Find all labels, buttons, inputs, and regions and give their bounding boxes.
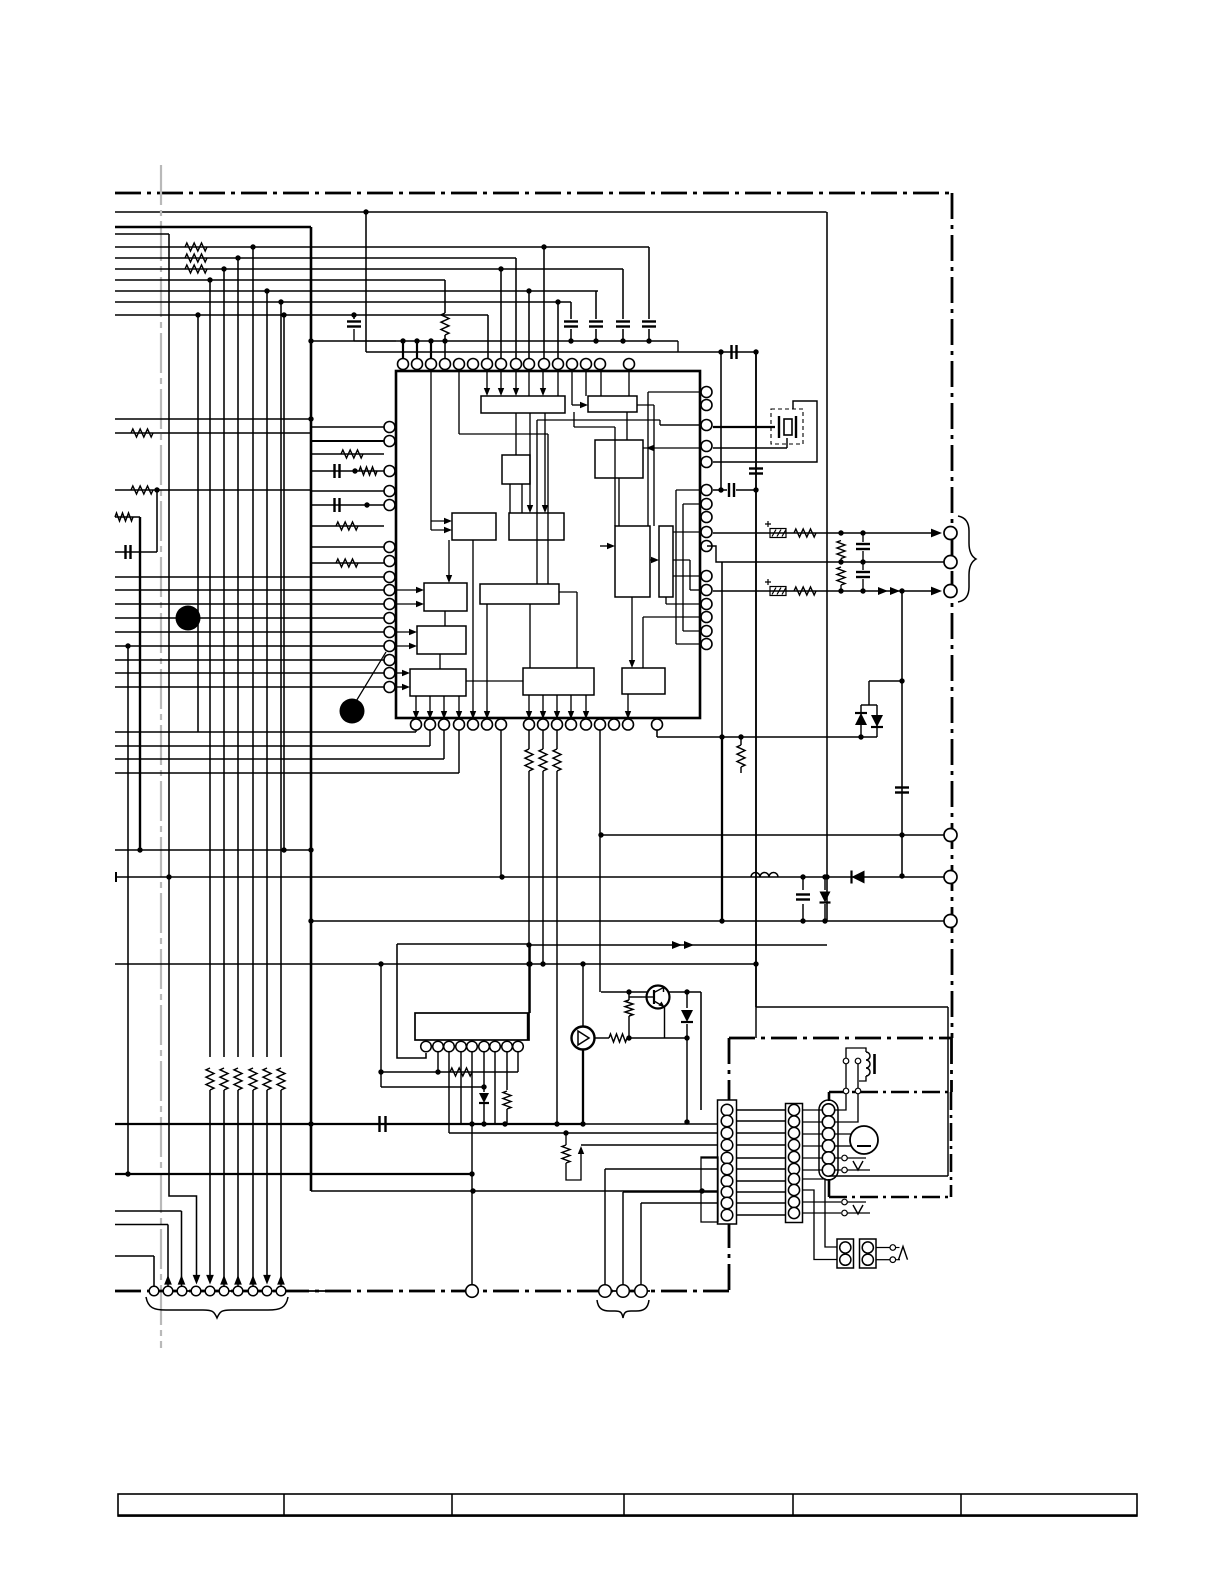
wire x=501 to pin [500, 269, 502, 358]
wire stub to rail [354, 340, 396, 342]
wire y=471 [311, 470, 384, 472]
cap C11 lead [802, 877, 804, 890]
junction [824, 874, 829, 879]
junction [699, 1188, 704, 1193]
IC U1 left pin 2 [384, 436, 395, 447]
resistor R3 [185, 265, 207, 273]
wire [862, 551, 864, 562]
arrowhead [527, 505, 533, 513]
fast-forward arrow 4 [684, 941, 694, 949]
IC U1 bottom pin 8 [524, 719, 535, 730]
resistor R20 [503, 1091, 511, 1109]
connector CN1 pin 2 [163, 1286, 173, 1296]
long net wire y=877 [117, 876, 944, 878]
wire CN3 pin10 to TP4 [802, 1212, 841, 1214]
CN2 pin5 stub [701, 1157, 718, 1159]
U1 wire L->bottom pin x=557 [556, 695, 558, 715]
connector CN5 pin 2 [840, 1254, 851, 1265]
IC U2 pin 8 [502, 1041, 513, 1052]
connector CN2 pin 6 [721, 1163, 733, 1175]
wire x=516 to pin [515, 258, 517, 358]
IC U1 top pin 16 [624, 359, 635, 370]
IC U1 right pin 16 [701, 639, 712, 650]
mating wire y=1121 [737, 1120, 785, 1122]
pin drop x=416 [415, 730, 417, 732]
border dash-dot jog vertical lower [728, 1222, 731, 1291]
wire CN4 pin4 to motor [835, 1145, 851, 1147]
connector CN2 pin 9 [721, 1197, 733, 1209]
border dash-dot right [951, 193, 954, 1038]
IC U1 bottom pin 15 [623, 719, 634, 730]
U1 wire J->K [439, 654, 441, 669]
mating wire y=1215 [737, 1214, 785, 1216]
IC U1 top pin 13 [567, 359, 578, 370]
U1 wire K->bottom pin x=430 [429, 696, 431, 715]
wire x=381 lower [380, 1072, 382, 1087]
jog wire pin to y=562 [707, 546, 722, 562]
diode D1 [855, 713, 867, 725]
polarity mark [765, 521, 771, 527]
U1 wire A->E x=530 [529, 413, 531, 509]
IC U2 pin 1 [421, 1041, 432, 1052]
IC U1 bottom pin 2 [425, 719, 436, 730]
IC U1 body [396, 371, 700, 718]
IC U1 bottom pin 4 [454, 719, 465, 730]
connector CN2 pin 7 [721, 1175, 733, 1187]
ferrite bead FB1 [770, 529, 786, 538]
diode D2 lead [876, 705, 878, 737]
unit bottom wire y=1176 [829, 1175, 948, 1177]
U1 wire x=690 [689, 560, 691, 590]
U1 wire x=683 [682, 504, 684, 631]
U1 wire to right pin 16 [676, 643, 701, 645]
wire x=623 cap to rail [622, 329, 624, 341]
IC U1 right pin 4 [701, 441, 712, 452]
leader line from marker 2 [355, 652, 386, 703]
U1 wire pin->A x=558 [557, 371, 559, 396]
resistor R1 [185, 243, 207, 251]
junction [378, 1069, 383, 1074]
U1 wire pin->A x=529 [528, 371, 530, 396]
resistor R16 [525, 749, 533, 771]
bold supply wire y=1124 [115, 1123, 583, 1125]
diode D5 [681, 1010, 693, 1022]
opto/LED indicator D4 [572, 1027, 595, 1050]
junction [195, 312, 200, 317]
wire diode tops [861, 704, 877, 706]
connector CN4 shell (rounded) [819, 1100, 838, 1180]
U1 wire sq->E leg1 [509, 484, 511, 513]
wire y=433 [115, 432, 311, 434]
IC U1 top pin 14 [581, 359, 592, 370]
bus wire x=281 lower [280, 1090, 282, 1278]
wire y=258 [115, 257, 516, 259]
wire x=529 to IC2 [528, 771, 530, 1013]
connector CN2 pin 10 [721, 1209, 733, 1221]
wire y=1191 [311, 1190, 718, 1192]
pin drop x=600 long [599, 730, 601, 992]
connector CN3 pin 8 [788, 1184, 799, 1195]
mating wire CN3-CN4 y=1146 [802, 1145, 822, 1147]
capacitor C649 [642, 322, 656, 327]
junction [684, 989, 689, 994]
U1 wire K->L [466, 680, 523, 682]
res R19 lead2 [740, 767, 742, 773]
resistor R224 [220, 1068, 228, 1090]
rail jog x=678 [677, 341, 679, 352]
IC U2 pin 4 [456, 1041, 467, 1052]
U1 wire into D [431, 520, 448, 522]
U1 wire L->bottom pin x=529 [528, 695, 530, 715]
U1 wire x=572 [571, 371, 573, 405]
TP wire [848, 1157, 867, 1159]
board boundary dash-dot vertical (gray) [160, 165, 162, 1348]
IC U1 left pin 11 [384, 613, 395, 624]
U1 wire F->G [650, 559, 655, 561]
junction [250, 244, 255, 249]
connector CN1 pin 10 [276, 1286, 286, 1296]
resistor R19 [737, 745, 745, 767]
IC U1 bottom pin 13 [595, 719, 606, 730]
connector CN1 pin 9 [262, 1286, 272, 1296]
U2 pin2 drop [437, 1052, 439, 1072]
wire y=732 [115, 731, 416, 733]
junction [166, 874, 171, 879]
wire to pin y=491 [311, 490, 384, 492]
wire y=1256 [115, 1255, 154, 1257]
capacitor C11 [796, 895, 810, 900]
junction [899, 678, 904, 683]
junction [378, 961, 383, 966]
IC U2 right edge bold [527, 1013, 529, 1040]
CN1 chain wire [147, 1290, 328, 1292]
U1 wire M->bottom pin [627, 694, 629, 715]
border dash-dot segment [950, 1038, 953, 1092]
junction [858, 734, 863, 739]
footer table divider 2 [451, 1494, 453, 1516]
wire y=737 [657, 736, 877, 738]
IC U2 pin 6 [479, 1041, 490, 1052]
wire x=181.5 [181, 1211, 183, 1280]
connector CN1 pin 8 [248, 1286, 258, 1296]
jack contact 6 [944, 915, 957, 928]
mating wire y=1192 [737, 1191, 785, 1193]
U1 wire K->bottom pin x=416 [415, 696, 417, 715]
zener diode ZD1 [820, 892, 831, 903]
U1 wire sq->E leg2 [521, 484, 523, 513]
IC U1 left pin 10 [384, 599, 395, 610]
capacitor C9 [856, 572, 870, 577]
resistor R4 [441, 313, 449, 335]
resistor R5 [131, 429, 153, 437]
U1 wire L->bottom pin x=543 [542, 695, 544, 715]
wire x=596 cap to rail [595, 329, 597, 341]
IC U2 pin 5 [467, 1041, 478, 1052]
junction [593, 338, 598, 343]
junction [154, 487, 159, 492]
junction [281, 312, 286, 317]
connector CN2 pin 5 [721, 1152, 733, 1164]
junction [753, 349, 758, 354]
footer table divider 3 [623, 1494, 625, 1516]
wire y=1192 to CN2 pin8 [623, 1191, 718, 1193]
capacitor C571 [564, 322, 578, 327]
bus wire x=281 [280, 302, 282, 1057]
U1 wire pin->B x=586 [585, 371, 587, 396]
IC U1 left pin 16 [384, 682, 395, 693]
long wire x=827 [826, 212, 828, 921]
junction [580, 961, 585, 966]
rail y=964 left part [115, 963, 311, 965]
junction [308, 847, 313, 852]
zener lead 2 [824, 904, 826, 921]
footer table bottom shadow [118, 1514, 1137, 1517]
junction [860, 559, 865, 564]
wire y=945 [530, 944, 827, 946]
capacitor C2 [347, 322, 361, 327]
U1 wire G bottom [665, 597, 667, 604]
IC U1 right pin 13 [701, 599, 712, 610]
wire y=835 [601, 834, 944, 836]
connector CN6 pin 1 [862, 1242, 873, 1253]
wire x=869 [868, 681, 870, 705]
connector CN1c pin 2 [617, 1285, 630, 1298]
pin drop x=459 [458, 730, 460, 773]
junction [540, 961, 545, 966]
connector CN4 pin 5 [822, 1152, 834, 1164]
arrowhead [456, 711, 462, 719]
IC U1 bottom pin 14 [609, 719, 620, 730]
junction [800, 874, 805, 879]
bold wire x=722 lower [721, 737, 723, 921]
bus wire x=284 [283, 315, 285, 850]
IC U1 top pin 12 [553, 359, 564, 370]
IC U1 bottom pin 16 [652, 719, 663, 730]
IC U1 top pin 8 [496, 359, 507, 370]
U1 wire B->C [626, 412, 628, 440]
net wire y=618 to IC pin [115, 617, 384, 619]
rail wire y=352 [366, 351, 756, 353]
U1 wire A->E x=545 [544, 413, 546, 509]
wire from CN1c pin3 up [640, 1203, 642, 1285]
IC U2 pin 2 [433, 1041, 444, 1052]
U2 pin7 drop [494, 1052, 496, 1123]
net wire y=646 to IC pin [115, 645, 384, 647]
junction [469, 1121, 474, 1126]
mating wire CN3-CN4 y=1122 [802, 1121, 822, 1123]
long rail wire y=964 [311, 963, 756, 965]
connector CN2 pin 8 [721, 1186, 733, 1198]
junction [308, 1121, 313, 1126]
resistor R238 [234, 1068, 242, 1090]
shield outline vertical x=311 (bold) [310, 227, 313, 1191]
coil L2 [866, 1052, 870, 1076]
wire R24 to y=1145 [566, 1150, 581, 1180]
U1 wire right pin 4 -> C [643, 447, 701, 449]
contact wire x=858 [857, 1064, 859, 1088]
bus wire x=210 [209, 280, 211, 1057]
junction [620, 338, 625, 343]
arrowhead up [164, 1275, 172, 1285]
arrowhead [542, 505, 548, 513]
IC U1 top pin 11 [539, 359, 550, 370]
IC U1 bottom pin 5 [468, 719, 479, 730]
U1 wire into F [600, 545, 611, 547]
junction [363, 209, 368, 214]
wire x=571 cap to rail [570, 329, 572, 341]
IC U1 top pin 5 [454, 359, 465, 370]
IC U1 left pin 5 [384, 500, 395, 511]
jack contact 4 [944, 829, 957, 842]
mating wire CN3-CN4 y=1158 [802, 1157, 822, 1159]
IC U1 left pin 14 [384, 655, 395, 666]
wire y=1007 [756, 1006, 948, 1008]
U1 wire C->F [618, 478, 620, 526]
junction [308, 918, 313, 923]
wire x=354 below cap [353, 329, 355, 341]
bus wire x=210 lower [209, 1090, 211, 1278]
CN6 wire 2 [876, 1259, 890, 1261]
connector CN5 pin 1 [840, 1242, 851, 1253]
wire y=291 [115, 290, 598, 292]
IC U2 pin 3 [444, 1041, 455, 1052]
junction [838, 530, 843, 535]
test point contact 4 [842, 1210, 848, 1216]
U1 wire pin->B x=601 [600, 371, 602, 396]
wire CN3 pin8 to CN5 [802, 1190, 839, 1260]
IC U1 right pin 9 [701, 527, 712, 538]
output jack contact 3 [944, 585, 957, 598]
res R22 lead2 [628, 1016, 630, 1038]
junction [400, 338, 405, 343]
U1 wire pin->H [395, 589, 420, 591]
mating wire y=1110 [737, 1109, 785, 1111]
IC U1 left pin 12 [384, 627, 395, 638]
CN1c chain wire [597, 1290, 650, 1292]
U1 wire L->bottom pin x=571 [570, 695, 572, 715]
IC U2 pin 7 [490, 1041, 501, 1052]
ground symbol 1 [853, 1161, 863, 1170]
bus wire x=238 lower [237, 1090, 239, 1278]
wire to pin y=547 [311, 546, 384, 548]
connector CN6 shell [860, 1239, 877, 1268]
connector CN1 pin 5 [205, 1286, 215, 1296]
junction [278, 299, 283, 304]
bold wire to crystal X1 [713, 426, 775, 428]
junction [221, 266, 226, 271]
connector CN3 pin 5 [788, 1151, 799, 1162]
res R19 lead [740, 737, 742, 745]
arrowhead [416, 601, 424, 607]
IC U1 left pin 15 [384, 668, 395, 679]
junction [899, 873, 904, 878]
U1 wire pin->B x=629 [628, 371, 630, 396]
U1 wire pin->K 2 [395, 686, 406, 688]
bus wire x=238 [237, 258, 239, 1057]
mating wire y=1158 [737, 1157, 785, 1159]
U1 wire I right [559, 591, 577, 593]
U1 internal block F [615, 526, 650, 597]
TP3 wire [848, 1201, 867, 1203]
U1 internal block E [509, 513, 564, 540]
diode D3 [852, 871, 865, 884]
coil bottom wire [859, 1076, 866, 1081]
U1 wire L->bottom pin x=586 [585, 695, 587, 715]
wire y=1124 thin part [583, 1123, 718, 1125]
arrowhead [402, 670, 410, 676]
wire CN3 pin7 to CN5 [802, 1179, 839, 1247]
bus wire x=198 [197, 315, 199, 732]
U1 wire I->bottom pin x=487 [486, 604, 488, 714]
junction [308, 416, 313, 421]
arrowhead [402, 684, 410, 690]
U1 wire y=420 [537, 419, 660, 421]
unit box dash-dot left upper [828, 1092, 831, 1101]
U1 internal block G [659, 526, 673, 597]
bus wire x=253 [252, 247, 254, 1057]
capacitor C1 [126, 545, 131, 559]
resistor R21 [450, 1068, 472, 1076]
U1 wire G to right pin 11 [673, 575, 701, 577]
U1 wire y=427 [574, 426, 615, 428]
connector stub terminal [115, 872, 117, 882]
U1 wire x=654 into F [653, 405, 655, 526]
arrowhead [554, 711, 560, 719]
junction [414, 338, 419, 343]
junction [860, 588, 865, 593]
arrowhead into jack [931, 529, 942, 538]
wire y=247 [115, 246, 649, 248]
resistor R10 [336, 522, 358, 530]
junction [822, 874, 827, 879]
junction [352, 468, 357, 473]
junction [526, 942, 531, 947]
bold riser x=403 [402, 341, 404, 358]
wire x=571 cap feed [570, 302, 572, 319]
net wire y=577 to IC pin [115, 576, 384, 578]
resistor R18 [553, 749, 561, 771]
IC U1 top pin 9 [511, 359, 522, 370]
CN6 wire 1 [876, 1247, 890, 1249]
IC U1 top pin 3 [426, 359, 437, 370]
connector CN4 pin 1 [822, 1104, 834, 1116]
junction [527, 961, 532, 966]
wire x=649 cap to rail [648, 329, 650, 341]
IC U1 top pin 10 [524, 359, 535, 370]
wire y=269 [115, 268, 623, 270]
wire y=517 [115, 516, 140, 518]
U1 wire H->J [444, 611, 446, 626]
IC U1 bottom pin 7 [496, 719, 507, 730]
junction [822, 918, 827, 923]
resistor R12 [794, 529, 816, 537]
net wire y=687 to IC pin [115, 686, 384, 688]
loop wire right leg [529, 944, 531, 1013]
mating wire y=1145 [737, 1144, 785, 1146]
IC U1 left pin 3 [384, 466, 395, 477]
bold riser x=431 [430, 341, 432, 358]
arrowhead [651, 557, 659, 563]
junction [207, 277, 212, 282]
test point contact [842, 1155, 848, 1161]
wire CN4 pin5 to TP [835, 1157, 841, 1159]
U1 wire F->M [631, 597, 633, 664]
arrowhead [484, 388, 490, 396]
wire x=445 lower [444, 335, 446, 358]
capacitor C596 [589, 322, 603, 327]
wire x=756 foot [755, 1007, 757, 1038]
wire from CN1c pin1 up [604, 1169, 606, 1285]
